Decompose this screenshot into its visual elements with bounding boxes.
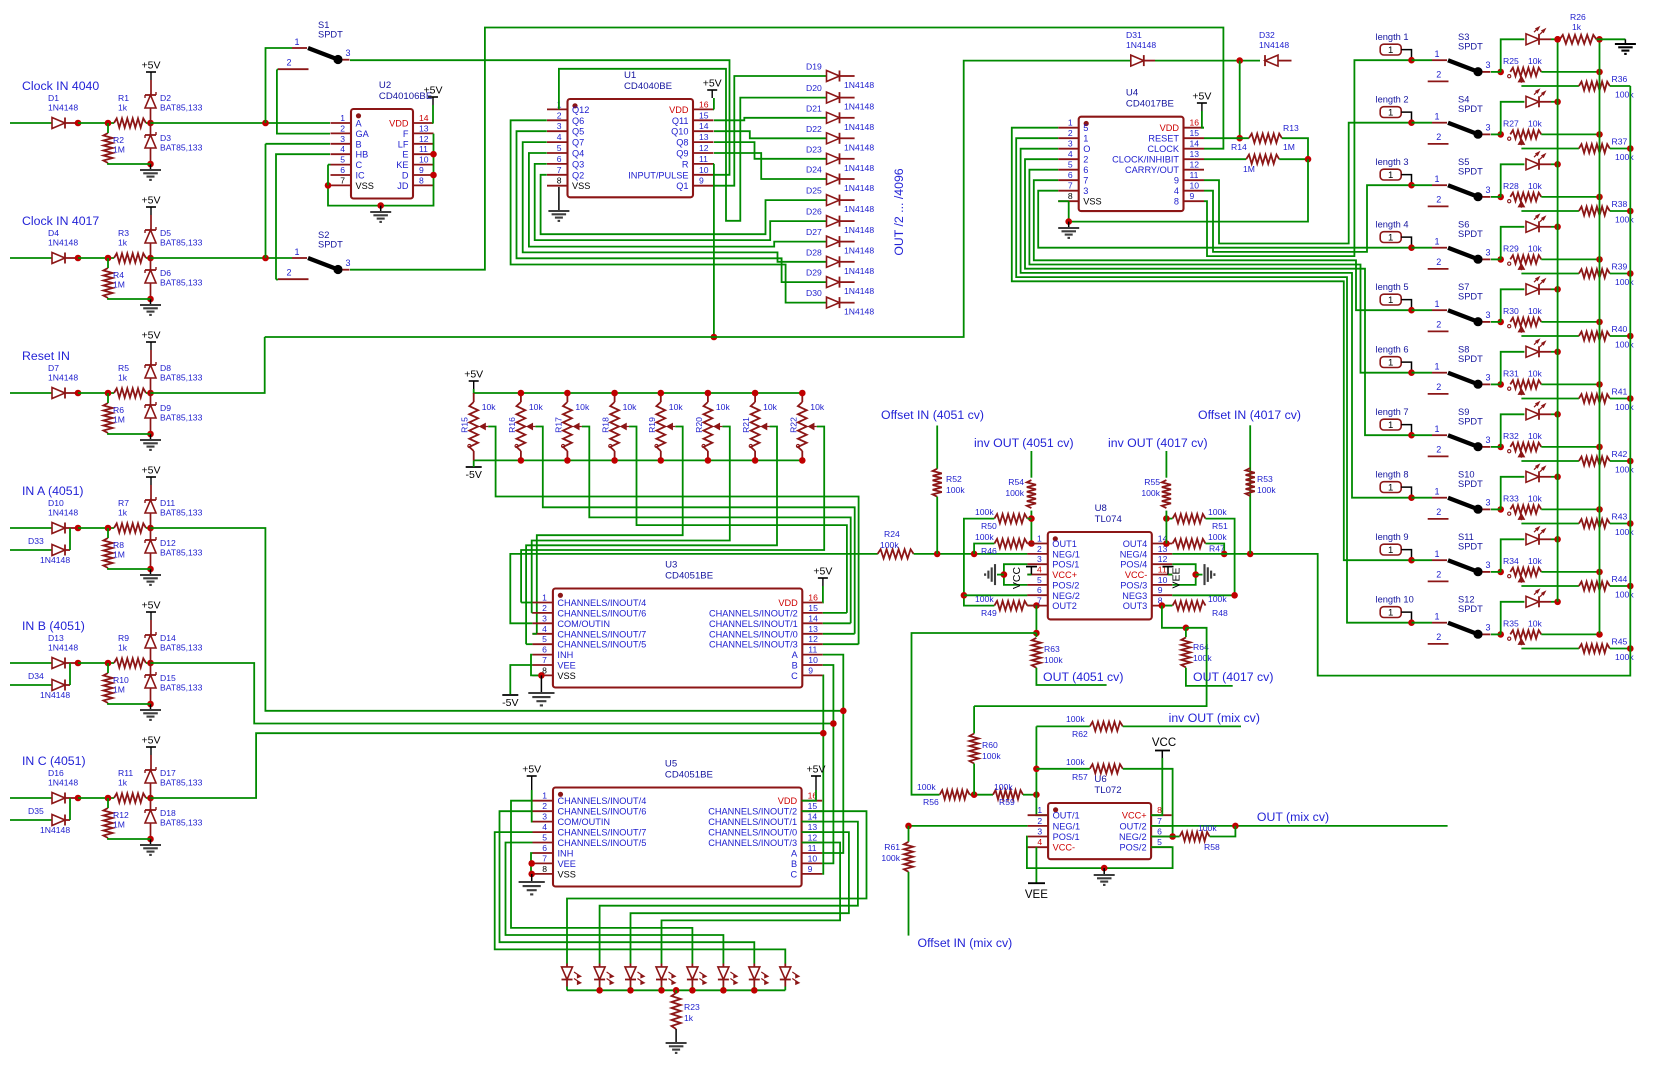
LED row 2 [1526,90,1545,108]
diode D1 [48,93,78,129]
switch S1 [278,20,351,69]
resistor R62 [1066,714,1123,739]
svg-text:1N4148: 1N4148 [844,246,874,256]
wire [277,70,330,134]
wire [1521,648,1579,650]
wire [722,980,724,987]
svg-text:VCC: VCC [1152,737,1176,749]
IC U5 CD4051BE [533,759,823,887]
IC U3 CD4051BE [532,560,822,688]
wire [1412,497,1433,499]
junction [518,390,525,397]
ground [140,575,161,585]
wire [78,797,114,799]
wire [802,790,816,801]
wire [150,215,152,230]
wire [108,298,151,299]
svg-text:100k: 100k [1615,527,1634,537]
svg-text:D26: D26 [806,207,822,217]
svg-text:9: 9 [1190,191,1195,201]
resistor R36 [1579,74,1634,99]
trimmer R34 [1503,556,1543,583]
wire [1036,768,1089,770]
wire [675,1029,677,1043]
junction [1596,444,1603,451]
svg-text:POS/2: POS/2 [1052,580,1079,590]
svg-text:IN C (4051): IN C (4051) [22,754,86,768]
svg-text:D11: D11 [160,498,175,508]
svg-text:CHANNELS/INOUT/5: CHANNELS/INOUT/5 [557,640,646,650]
wire [909,825,1028,827]
wire [1058,200,1069,202]
svg-text:13: 13 [808,624,818,634]
junction [611,390,618,397]
svg-text:D25: D25 [806,186,822,196]
svg-text:R20: R20 [694,417,704,433]
LED row 6 [1526,340,1545,358]
svg-text:CARRY/OUT: CARRY/OUT [1125,165,1179,175]
svg-text:Q3: Q3 [572,159,584,169]
svg-text:2: 2 [1083,155,1088,165]
svg-text:1: 1 [1388,483,1393,494]
wire [150,418,152,434]
svg-text:7: 7 [542,853,547,863]
svg-text:R63: R63 [1044,644,1060,654]
wire net A2 [822,655,843,853]
svg-text:NEG/2: NEG/2 [1119,832,1147,842]
svg-text:100k: 100k [1208,507,1227,517]
diode D18 [145,807,203,828]
svg-text:Q11: Q11 [672,116,689,126]
svg-text:9: 9 [1174,176,1179,186]
power -5V [466,467,482,481]
svg-text:1k: 1k [118,238,128,248]
wire [1249,463,1251,554]
junction [1627,520,1634,527]
svg-text:OUT/1: OUT/1 [1053,811,1080,821]
junction [1596,69,1603,76]
wire mix bus 4017 [1270,86,1630,676]
wire [1278,60,1292,62]
svg-text:8: 8 [419,175,424,185]
svg-text:16: 16 [699,99,709,109]
diode D4 [48,228,78,264]
svg-text:CHANNELS/INOUT/0: CHANNELS/INOUT/0 [708,828,797,838]
svg-text:1k: 1k [118,103,128,113]
wire [840,281,855,283]
wire [1282,138,1308,159]
wire [1162,606,1186,628]
ground [666,1043,687,1053]
junction [971,551,978,558]
svg-text:R33: R33 [1503,494,1519,504]
wire [1412,59,1433,61]
wire [146,257,151,259]
wire [599,964,601,967]
svg-text:D9: D9 [160,403,171,413]
svg-text:4: 4 [542,624,547,634]
svg-text:100k: 100k [946,485,965,495]
wire [1035,606,1037,633]
wire [432,105,435,123]
svg-text:IC: IC [356,171,366,181]
svg-text:R52: R52 [946,474,962,484]
wire [1162,605,1172,607]
power +5V [142,465,161,486]
svg-text:100k: 100k [1044,655,1063,665]
wire [108,433,151,434]
svg-text:SPDT: SPDT [1458,42,1483,52]
svg-text:4: 4 [557,132,562,142]
svg-text:R18: R18 [601,417,611,433]
svg-text:LF: LF [398,139,409,149]
junction [1497,194,1504,201]
resistor R6 [103,403,125,433]
svg-text:7: 7 [1037,596,1042,606]
svg-text:1M: 1M [113,820,125,830]
wire [150,513,152,528]
svg-text:1: 1 [340,113,345,123]
length selector 10 [1376,595,1414,621]
diode D21 [806,103,874,132]
svg-text:D17: D17 [160,768,176,778]
diode D11 [145,497,203,518]
svg-text:1: 1 [1434,549,1439,559]
svg-text:10: 10 [808,853,818,863]
wire [1103,868,1105,875]
resistor R53 [1246,468,1277,496]
svg-text:8: 8 [1157,805,1162,815]
trimmer R25 [1503,56,1543,83]
wire [473,460,475,467]
svg-text:D8: D8 [160,363,171,373]
svg-text:POS/4: POS/4 [1120,560,1147,570]
diode D22 [806,124,874,153]
junction [1627,145,1634,152]
junction [1408,244,1415,251]
wire [531,655,541,676]
wire [1521,398,1579,400]
junction [1408,57,1415,64]
wire [1501,289,1525,322]
svg-text:1M: 1M [113,415,125,425]
svg-text:Q2: Q2 [572,170,584,180]
wire [840,117,855,119]
svg-text:R17: R17 [553,417,563,433]
trimmer R22 [788,402,825,451]
wire [722,987,724,991]
junction [658,457,665,464]
svg-text:10k: 10k [482,402,497,412]
wire NEG4 line [1172,553,1270,555]
wire [964,594,1028,596]
junction [1033,630,1040,637]
wire [532,427,730,613]
svg-text:Q6: Q6 [572,116,584,126]
svg-text:R43: R43 [1612,512,1628,522]
svg-text:Clock IN 4017: Clock IN 4017 [22,214,99,228]
diode D5 [145,227,203,248]
wire [107,123,109,133]
wire [1186,668,1233,686]
junction [1497,69,1504,76]
svg-text:VCC+: VCC+ [1052,570,1077,580]
wire [1029,170,1411,373]
junction [689,987,696,994]
wire [1539,413,1551,415]
wire [78,662,114,664]
svg-text:R39: R39 [1612,262,1628,272]
svg-text:10: 10 [699,165,709,175]
svg-text:R10: R10 [113,675,129,685]
LED array 1 [562,967,581,984]
trimmer R30 [1503,306,1543,333]
wire [150,283,152,299]
label Reset IN [22,349,70,363]
wire [541,175,827,234]
svg-text:1: 1 [1388,420,1393,431]
wire [1151,836,1173,838]
wire [908,872,910,936]
svg-text:D28: D28 [806,247,822,257]
junction [1232,823,1239,830]
diode D17 [145,767,203,788]
svg-text:11: 11 [1190,170,1199,180]
wire [753,980,755,987]
svg-text:S11: S11 [1458,532,1474,542]
svg-text:S1: S1 [318,20,329,30]
wire [707,393,709,402]
wire [1172,564,1195,585]
svg-text:B: B [356,139,362,149]
svg-text:POS/3: POS/3 [1120,580,1147,590]
junction [705,390,712,397]
wire [523,142,827,262]
junction [1028,540,1035,547]
wire [973,764,975,795]
svg-text:Q1: Q1 [676,181,688,191]
wire [1541,633,1599,635]
svg-text:R22: R22 [788,417,798,433]
svg-text:1N4148: 1N4148 [844,102,874,112]
svg-text:D: D [402,171,409,181]
wire [566,964,568,967]
wire [1541,446,1599,448]
wire [10,392,52,394]
svg-text:U8: U8 [1095,503,1107,514]
wire [1025,159,1412,435]
resistor R23 [672,993,700,1029]
wire [1123,769,1173,837]
svg-text:D13: D13 [48,633,64,643]
wire [1610,585,1631,587]
junction [1554,224,1561,231]
svg-text:R42: R42 [1612,449,1628,459]
svg-text:R48: R48 [1212,608,1228,618]
svg-text:+5V: +5V [703,78,722,90]
length selector 3 [1376,157,1412,183]
svg-text:1: 1 [1037,805,1042,815]
svg-text:length 8: length 8 [1376,470,1409,480]
resistor R58 [1180,823,1220,852]
svg-text:100k: 100k [1208,594,1227,604]
wire [531,612,534,614]
wire [65,527,78,529]
wire net B [151,663,834,724]
svg-text:BAT85,133: BAT85,133 [160,143,203,153]
LED array 4 [656,967,675,984]
svg-text:R35: R35 [1503,619,1519,629]
svg-text:D33: D33 [28,536,44,546]
wire [1035,847,1037,883]
wire [531,612,533,614]
diode D34 [28,671,70,700]
power +5V [464,369,483,390]
diode D35 [28,806,70,835]
svg-text:1: 1 [1388,233,1393,244]
wire [521,602,532,604]
svg-text:HB: HB [356,150,369,160]
label OUT /2.../4096 [892,168,906,255]
svg-text:16: 16 [808,593,818,603]
svg-text:10k: 10k [1528,619,1543,629]
svg-text:1N4148: 1N4148 [48,238,78,248]
wire net A [151,528,844,711]
svg-text:VEE: VEE [558,859,576,869]
svg-text:6: 6 [557,154,562,164]
junction [752,390,759,397]
diode D33 [28,536,70,565]
resistor R12 [103,808,129,838]
svg-text:CD4051BE: CD4051BE [665,571,713,582]
svg-text:length 6: length 6 [1376,345,1409,355]
svg-text:CHANNELS/INOUT/6: CHANNELS/INOUT/6 [558,807,647,817]
svg-text:10k: 10k [1528,431,1543,441]
junction [1497,569,1504,576]
svg-text:3: 3 [1486,435,1491,445]
label OUT (4051 cv) [1043,670,1123,684]
wire [1491,133,1501,135]
junction [1497,631,1504,638]
svg-text:1: 1 [1434,112,1439,122]
svg-text:+5V: +5V [807,764,826,776]
trimmer R18 [601,402,638,451]
wire [753,987,755,991]
junction [1497,506,1504,513]
svg-text:10k: 10k [810,402,825,412]
svg-text:15: 15 [699,110,709,120]
wire [520,602,522,604]
wire net C [151,733,824,798]
diode D31 [1126,30,1156,66]
junction [1065,218,1072,225]
wire [822,586,824,603]
wire [265,144,267,258]
svg-text:length 3: length 3 [1376,157,1409,167]
svg-text:SPDT: SPDT [1458,479,1483,489]
junction [1236,57,1243,64]
wire [1204,123,1412,244]
junction [147,701,154,708]
svg-text:+5V: +5V [522,764,541,776]
svg-text:1N4148: 1N4148 [48,373,78,383]
svg-text:2: 2 [1037,544,1042,554]
wire [754,393,756,402]
wire [150,663,152,675]
svg-text:NEG/1: NEG/1 [1053,821,1081,831]
svg-text:S12: S12 [1458,595,1475,605]
junction [75,390,82,397]
wire [1035,633,1037,637]
svg-text:SPDT: SPDT [1458,229,1483,239]
wire [600,822,858,964]
svg-text:R27: R27 [1503,119,1519,129]
svg-text:3: 3 [1486,185,1491,195]
svg-text:10k: 10k [1528,556,1543,566]
svg-text:CHANNELS/INOUT/1: CHANNELS/INOUT/1 [709,619,798,629]
wire [10,662,52,664]
wire [846,612,848,614]
svg-text:4: 4 [1037,837,1042,847]
svg-text:B: B [791,859,797,869]
wire [558,187,560,211]
wire [69,663,71,685]
svg-text:2: 2 [1436,632,1441,642]
wire [520,451,522,460]
wire [107,798,109,808]
svg-text:D31: D31 [1126,30,1142,40]
wire [567,811,867,963]
svg-text:S10: S10 [1458,470,1475,480]
wire [350,60,730,175]
power +5V [142,330,161,351]
svg-text:6: 6 [1157,827,1162,837]
power VCC [1152,737,1176,758]
wire [150,243,152,258]
diode D20 [806,83,874,112]
svg-text:S4: S4 [1458,95,1469,105]
svg-text:BAT85,133: BAT85,133 [160,103,203,113]
wire [1541,508,1599,510]
svg-text:Offset IN (4051 cv): Offset IN (4051 cv) [881,408,984,422]
svg-text:1M: 1M [1243,164,1255,174]
svg-text:4: 4 [1068,149,1073,159]
wire [276,279,278,281]
wire [1027,837,1173,869]
svg-text:SPDT: SPDT [1458,354,1483,364]
svg-text:2: 2 [1436,70,1441,80]
wire [1610,335,1631,337]
svg-text:1: 1 [1388,170,1393,181]
svg-text:10: 10 [1190,181,1200,191]
svg-text:3: 3 [1486,310,1491,320]
junction [1596,194,1603,201]
resistor R43 [1579,512,1634,537]
svg-text:+5V: +5V [142,330,161,342]
wire [78,527,114,529]
svg-text:1k: 1k [118,373,128,383]
svg-text:1N4148: 1N4148 [844,122,874,132]
resistor R57 [1066,757,1123,782]
wire [599,987,601,991]
svg-text:+5V: +5V [142,465,161,477]
svg-text:1: 1 [1434,612,1439,622]
svg-text:9: 9 [699,176,704,186]
power +5V [142,600,161,621]
svg-text:5: 5 [542,833,547,843]
svg-text:OUT (mix cv): OUT (mix cv) [1257,810,1329,824]
ground [519,882,545,894]
